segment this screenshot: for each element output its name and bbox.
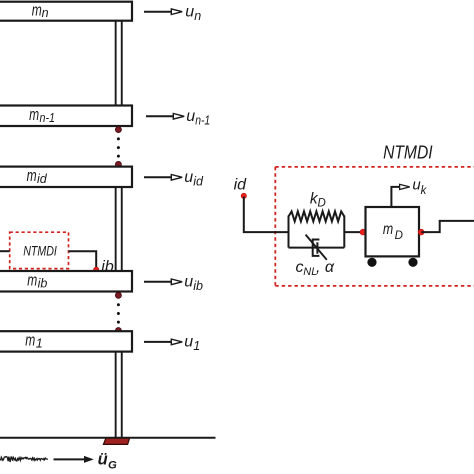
svg-text:ü: ü — [98, 451, 108, 469]
response arrow u_1 — [144, 334, 200, 354]
node id dot — [241, 193, 246, 198]
response arrow u_n — [144, 3, 201, 23]
damper label cNL, alpha — [296, 259, 335, 278]
roller wheel right — [408, 258, 417, 267]
svg-text:m: m — [383, 221, 393, 238]
svg-text:m: m — [29, 105, 39, 124]
column segment between m_n and m_n-1 — [115, 20, 123, 106]
floor mass m_1 bar — [0, 331, 132, 352]
svg-text:, α: , α — [316, 259, 335, 276]
floor mass m_n bar — [0, 0, 132, 20]
svg-text:m: m — [25, 331, 35, 350]
parallel frame left bar — [288, 216, 290, 248]
svg-text:m: m — [27, 270, 37, 289]
svg-text:u: u — [186, 108, 195, 125]
svg-text:D: D — [395, 230, 403, 242]
response arrow u_id — [144, 169, 204, 189]
roller wheel left — [367, 258, 376, 267]
svg-text:m: m — [32, 0, 42, 19]
floor mass m_n-1 bar — [0, 105, 132, 126]
svg-text:id: id — [37, 172, 48, 186]
svg-text:id: id — [234, 176, 248, 193]
parallel frame right bar — [343, 216, 345, 248]
NTMDI dashed enclosure — [275, 167, 474, 286]
svg-text:n-1: n-1 — [195, 114, 210, 128]
svg-text:1: 1 — [36, 336, 43, 350]
output wire from mass to right edge — [421, 221, 474, 232]
svg-text:n: n — [194, 9, 201, 23]
svg-text:G: G — [108, 460, 117, 472]
svg-text:ib: ib — [38, 276, 48, 290]
node ib dot — [94, 267, 99, 272]
damper cNL branch — [289, 235, 345, 260]
wire from node id to spring-damper — [244, 197, 289, 233]
floor mass m_ib bar — [0, 270, 132, 291]
node dot (maroon) below m_n-1 — [115, 127, 121, 133]
continuation dots between m_ib and m_1 — [117, 303, 120, 323]
response arrow u_ib — [144, 274, 203, 294]
wire from left edge into NTMDI box — [0, 250, 10, 252]
wire from frame to mass — [344, 231, 363, 233]
svg-text:ib: ib — [193, 279, 203, 293]
connection node dot (left of mass) — [360, 229, 366, 235]
svg-text:u: u — [184, 169, 193, 186]
continuation dots between m_n-1 and m_id — [117, 137, 120, 157]
svg-text:NTMDI: NTMDI — [383, 142, 433, 162]
connection node dot (right of mass) — [418, 229, 424, 235]
svg-text:c: c — [296, 259, 304, 276]
svg-text:id: id — [193, 175, 204, 189]
spring kD — [289, 191, 345, 222]
floor mass m_id bar — [0, 166, 132, 187]
svg-text:u: u — [185, 3, 194, 20]
ground line — [0, 437, 216, 439]
svg-text:D: D — [318, 197, 326, 209]
wire from NTMDI box to node ib — [69, 251, 97, 268]
svg-text:1: 1 — [193, 339, 200, 353]
svg-text:u: u — [184, 274, 193, 291]
response arrow u_n-1 — [146, 108, 210, 128]
NTMDI dashed box (building side) — [10, 232, 69, 268]
node dot (maroon) above m_1 — [115, 328, 121, 334]
column segment below m_1 to ground — [115, 351, 123, 438]
node dot (maroon) above m_id — [115, 161, 121, 167]
svg-text:n-1: n-1 — [40, 111, 56, 125]
svg-text:u: u — [184, 334, 193, 351]
foundation block — [103, 438, 129, 445]
svg-text:m: m — [27, 166, 37, 185]
ground motion signal trace — [0, 457, 48, 462]
ground acceleration label u''_G — [98, 451, 117, 472]
displacement arrow u_k — [391, 176, 427, 206]
mass mD box — [366, 207, 420, 256]
node dot (maroon) below m_ib — [115, 292, 121, 298]
svg-text:n: n — [42, 6, 49, 20]
column segment between m_id and m_ib — [115, 186, 123, 272]
svg-text:NTMDI: NTMDI — [23, 244, 57, 259]
ground acceleration arrow — [54, 456, 94, 463]
